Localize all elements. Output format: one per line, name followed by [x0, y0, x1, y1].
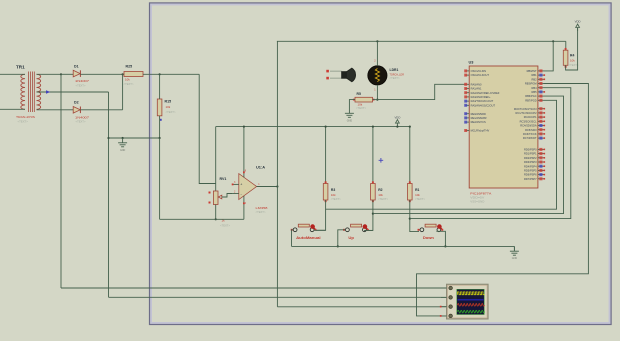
- svg-text:VSS=GND: VSS=GND: [470, 200, 484, 204]
- resistor R3: [323, 181, 341, 202]
- wire net3 to RB4 (line C): [410, 88, 571, 219]
- wire net1 R3 to RB7 (line A): [326, 100, 557, 209]
- svg-text:RA5/AN4/SS/C2OUT: RA5/AN4/SS/C2OUT: [471, 103, 496, 107]
- wire net1 branch down to AutoManual: [316, 209, 326, 230]
- junction LDR top: [376, 40, 378, 42]
- svg-text:R3: R3: [331, 188, 335, 192]
- speaker LS: [342, 68, 356, 82]
- wire top rail: [277, 40, 566, 42]
- svg-text:RA4/T0CKI/C1OUT: RA4/T0CKI/C1OUT: [471, 99, 494, 103]
- junction ground symbol: [122, 137, 124, 139]
- svg-text:RB2: RB2: [532, 77, 538, 81]
- power symbol VDD top: [575, 20, 581, 31]
- svg-text:RC2/CCP1: RC2/CCP1: [524, 115, 537, 119]
- wire node A down to scope channel A: [60, 74, 62, 288]
- svg-text:<TEXT>: <TEXT>: [390, 76, 400, 80]
- svg-text:<TEXT>: <TEXT>: [256, 210, 266, 214]
- oscilloscope pins: [440, 286, 453, 318]
- svg-text:RA0/AN0: RA0/AN0: [471, 82, 482, 86]
- svg-text:<TEXT>: <TEXT>: [356, 106, 366, 110]
- op-amp V- pin wire: [243, 196, 245, 220]
- junction R2 top rail: [372, 126, 374, 128]
- wire net3 R1 down to Down button: [410, 200, 419, 232]
- svg-text:RA1/AN1: RA1/AN1: [471, 87, 482, 91]
- resistor R15: [157, 99, 176, 121]
- svg-text:OSC1/CLKIN: OSC1/CLKIN: [471, 69, 487, 73]
- svg-text:<TEXT>: <TEXT>: [331, 197, 341, 201]
- wire LDR column vertical: [276, 41, 278, 307]
- svg-text:VDD=5V: VDD=5V: [470, 196, 484, 200]
- wire LDR node to PIC RA0: [377, 84, 465, 99]
- U3 right pins: [514, 69, 545, 181]
- ground symbol left: [118, 138, 127, 152]
- svg-text:RC7/RX/DT: RC7/RX/DT: [523, 136, 537, 140]
- junction R3 top rail: [325, 126, 327, 128]
- wire R25 output row: [143, 73, 199, 75]
- svg-text:AutoManual: AutoManual: [296, 236, 321, 240]
- svg-text:R2: R2: [378, 188, 382, 192]
- wire D1 cathode to node B: [80, 73, 122, 75]
- svg-text:RD0/PSP0: RD0/PSP0: [524, 148, 537, 152]
- power symbol VDD mid: [394, 115, 400, 126]
- wire scope channel C horizontal: [277, 306, 446, 308]
- wire net2 R2 down to Up button: [364, 200, 373, 230]
- svg-text:RC3/SCK/SCL: RC3/SCK/SCL: [520, 119, 538, 123]
- op-amp noninverting stub (unconnected): [233, 183, 239, 185]
- oscilloscope screen: [457, 289, 485, 314]
- svg-text:LM358: LM358: [256, 206, 268, 210]
- microcontroller U3: [469, 59, 538, 203]
- wire RB3 to scope channel D: [417, 84, 589, 316]
- wire center tap down to ground rail and scope channel B: [108, 92, 110, 297]
- wire secondary center tap: [37, 91, 109, 93]
- svg-text:RD1/PSP1: RD1/PSP1: [524, 152, 537, 156]
- svg-text:VDD: VDD: [394, 115, 400, 119]
- junction R15/ground rail: [159, 137, 161, 139]
- svg-text:U3: U3: [469, 59, 475, 64]
- svg-text:RD6/PSP6: RD6/PSP6: [524, 173, 537, 177]
- resistor R5: [353, 92, 375, 110]
- svg-text:10k: 10k: [331, 193, 336, 197]
- wire ground rail down to op-amp ground wire: [159, 138, 161, 219]
- push button Down: [418, 224, 444, 240]
- svg-text:<TEXT>: <TEXT>: [76, 120, 86, 124]
- svg-text:<TEXT>: <TEXT>: [378, 197, 388, 201]
- junction center tap / ground rail: [107, 137, 109, 139]
- svg-text:R5: R5: [357, 92, 361, 96]
- junction R1 top rail: [409, 126, 411, 128]
- svg-text:+: +: [240, 183, 242, 187]
- push button Up: [343, 224, 369, 240]
- junction R15 top: [159, 73, 161, 75]
- svg-text:RE2/AN7/CS: RE2/AN7/CS: [471, 120, 486, 124]
- svg-text:D1: D1: [74, 65, 79, 69]
- wire R4 bottom to VDD: [566, 28, 578, 71]
- wire rectifier node down to RV1: [199, 74, 216, 183]
- wire op-amp ground run: [160, 218, 244, 220]
- svg-text:RC0/T1OSO/T1CKI: RC0/T1OSO/T1CKI: [514, 107, 537, 111]
- svg-text:RC6/TX/CK: RC6/TX/CK: [523, 132, 537, 136]
- svg-text:RA2/AN2/VREF-/CVREF: RA2/AN2/VREF-/CVREF: [471, 91, 500, 95]
- wire R3 top lead: [325, 127, 327, 184]
- origin marker blue cross R2: [379, 158, 384, 163]
- wire scope channel B horizontal: [109, 296, 447, 298]
- op-amp V+ pin wire: [243, 127, 245, 178]
- wire VDD rail corner down to RV1 top: [215, 127, 217, 191]
- junction net3 line C: [409, 218, 411, 220]
- svg-text:10k: 10k: [570, 59, 575, 63]
- wire R2 top lead: [372, 127, 374, 184]
- wire R15 top lead: [159, 74, 161, 99]
- svg-text:10k: 10k: [358, 103, 363, 107]
- svg-text:GND: GND: [120, 149, 126, 152]
- svg-text:Up: Up: [348, 236, 354, 240]
- svg-text:RC5/SDO: RC5/SDO: [525, 128, 537, 132]
- svg-text:R1: R1: [415, 188, 419, 192]
- svg-text:10k: 10k: [378, 193, 383, 197]
- svg-text:RD3/PSP3: RD3/PSP3: [524, 160, 537, 164]
- wire primary bottom: [0, 108, 25, 110]
- svg-text:VDD: VDD: [575, 20, 581, 24]
- svg-text:10k: 10k: [125, 78, 130, 82]
- svg-text:R15: R15: [165, 100, 172, 104]
- svg-text:RB3/PGM: RB3/PGM: [525, 82, 537, 86]
- wire LDR top pin: [376, 41, 378, 66]
- push button AutoManual: [291, 224, 321, 240]
- svg-text:MCLR/Vpp/THV: MCLR/Vpp/THV: [471, 129, 490, 133]
- diode D2: [73, 101, 89, 124]
- ground symbol at R5: [345, 109, 354, 123]
- wire Up left to ground rail: [338, 230, 346, 247]
- wire secondary bottom to D2 anode: [37, 109, 74, 111]
- wire Up right to net2: [366, 229, 373, 231]
- svg-text:R4: R4: [570, 54, 574, 58]
- junction Down ground: [444, 245, 446, 247]
- svg-text:RD7/PSP7: RD7/PSP7: [524, 177, 537, 181]
- svg-text:RB4: RB4: [532, 86, 538, 90]
- svg-text:RV1: RV1: [220, 177, 227, 181]
- op-amp inverting stub: [233, 193, 239, 195]
- wire AutoManual left to ground rail: [292, 230, 294, 247]
- svg-text:R25: R25: [126, 65, 133, 69]
- svg-text:TR1: TR1: [16, 65, 25, 70]
- resistor R2: [371, 181, 389, 202]
- svg-text:RB7/PGD: RB7/PGD: [525, 98, 537, 102]
- ground symbol buttons: [510, 246, 519, 260]
- svg-text:TORCH_LDR: TORCH_LDR: [390, 73, 405, 77]
- svg-text:Down: Down: [423, 236, 434, 240]
- U3 left pins: [464, 69, 500, 133]
- wire R5 left to ground: [349, 100, 355, 109]
- junction RB0 rail: [552, 40, 554, 42]
- resistor R1: [408, 181, 426, 202]
- svg-text:PIC16F877A: PIC16F877A: [470, 191, 491, 195]
- wire scope channel A horizontal: [61, 287, 447, 289]
- sounder pins (unconnected): [326, 70, 329, 73]
- svg-text:RE1/AN6/WR: RE1/AN6/WR: [471, 116, 487, 120]
- svg-text:RD5/PSP5: RD5/PSP5: [524, 169, 537, 173]
- svg-text:<TEXT>: <TEXT>: [415, 197, 425, 201]
- svg-text:TRAN-2P3S: TRAN-2P3S: [16, 115, 35, 119]
- junction RV1 bottom / ground wire: [215, 218, 217, 220]
- svg-text:RC4/SDI/SDA: RC4/SDI/SDA: [520, 124, 537, 128]
- svg-text:1N4007: 1N4007: [75, 79, 90, 83]
- svg-text:RD2/PSP2: RD2/PSP2: [524, 156, 537, 160]
- svg-text:10k: 10k: [415, 193, 420, 197]
- node A junction: [60, 73, 62, 75]
- svg-text:<TEXT>: <TEXT>: [220, 224, 230, 228]
- wire ground rail: [109, 137, 160, 139]
- svg-text:RC1/T1OSI/CCP2: RC1/T1OSI/CCP2: [516, 111, 538, 115]
- wire op-amp output: [257, 186, 278, 188]
- wire Down right to ground rail: [436, 231, 445, 246]
- junction op-amp supply: [243, 126, 245, 128]
- svg-text:1N4007: 1N4007: [75, 115, 90, 119]
- wire node A to D1 anode: [61, 73, 73, 75]
- node B junction D1/D2/R25: [122, 73, 124, 75]
- wire LDR bottom pin: [376, 85, 378, 100]
- svg-text:RB5: RB5: [532, 90, 538, 94]
- resistor R4: [563, 48, 579, 68]
- svg-text:RB1: RB1: [532, 73, 538, 77]
- junction Up ground: [337, 245, 339, 247]
- wire primary top: [0, 73, 25, 75]
- svg-text:<TEXT>: <TEXT>: [76, 83, 86, 87]
- transformer TR1: [16, 65, 41, 124]
- svg-text:OSC2/CLKOUT: OSC2/CLKOUT: [471, 73, 490, 77]
- wire R5 right: [373, 99, 378, 101]
- svg-text:U1:A: U1:A: [256, 165, 265, 170]
- svg-text:GND: GND: [512, 257, 518, 260]
- wire R1 top lead: [409, 127, 411, 184]
- svg-text:10k: 10k: [166, 105, 171, 109]
- LDR LDR1: [368, 60, 404, 92]
- wire D2 cathode to vertical join: [80, 109, 122, 111]
- probe marker blue arrow: [46, 90, 50, 93]
- junction VDD mid: [396, 126, 398, 128]
- svg-text:<TEXT>: <TEXT>: [18, 120, 29, 124]
- svg-text:RD4/PSP4: RD4/PSP4: [524, 164, 537, 168]
- junction LDR/R5/RA0: [376, 99, 378, 101]
- wire RB0 to top rail: [544, 41, 554, 71]
- svg-text:<TEXT>: <TEXT>: [166, 110, 176, 114]
- svg-text:RE0/AN5/RD: RE0/AN5/RD: [471, 112, 486, 116]
- wire RV1 wiper to op-amp inverting input: [222, 194, 233, 198]
- svg-text:D2: D2: [74, 101, 79, 105]
- svg-text:RB6/PGC: RB6/PGC: [525, 94, 537, 98]
- svg-text:<TEXT>: <TEXT>: [124, 82, 134, 86]
- junction op-amp output / LDR column: [276, 185, 278, 187]
- junction net2 line B: [372, 213, 374, 215]
- potentiometer RV1: [209, 177, 231, 228]
- diode D1: [73, 65, 89, 88]
- wire AutoManual right to net1: [314, 229, 326, 231]
- svg-text:RB0/INT: RB0/INT: [527, 69, 537, 73]
- wire secondary top to node A: [37, 73, 62, 75]
- svg-text:GND: GND: [347, 119, 353, 122]
- oscilloscope body: [447, 284, 488, 319]
- wire D2 output up to node B: [122, 74, 124, 110]
- op-amp U1:A: [234, 165, 268, 214]
- wire VDD rail: [216, 126, 410, 128]
- wire top rail corner to R4: [565, 41, 567, 50]
- wire R15 bottom lead to ground rail: [159, 116, 161, 138]
- wire net2 to RB6 (line B): [373, 96, 564, 214]
- wire RV1 bottom lead: [215, 205, 217, 220]
- wire buttons ground rail: [292, 245, 515, 247]
- resistor R25: [124, 65, 144, 86]
- svg-text:RA3/AN3/VREF+: RA3/AN3/VREF+: [471, 95, 491, 99]
